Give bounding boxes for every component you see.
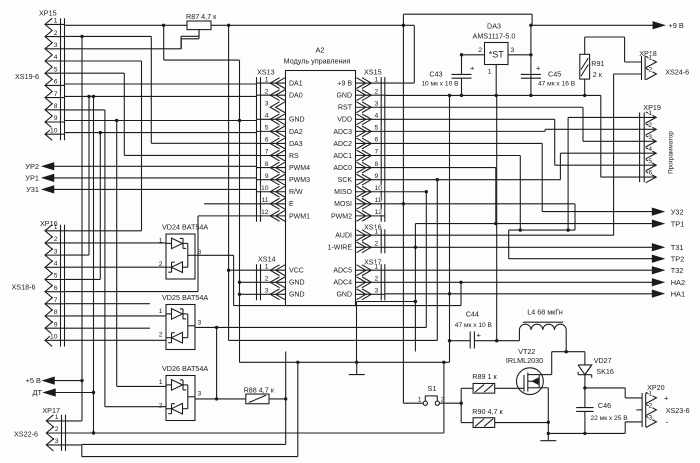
svg-text:GND: GND <box>336 93 352 100</box>
svg-text:1: 1 <box>159 379 163 386</box>
svg-text:2: 2 <box>159 332 163 339</box>
svg-text:DA2: DA2 <box>289 129 303 136</box>
svg-text:ADC2: ADC2 <box>333 141 352 148</box>
svg-text:4: 4 <box>54 54 58 61</box>
svg-text:8: 8 <box>265 161 269 168</box>
svg-text:1: 1 <box>159 237 163 244</box>
svg-text:RST: RST <box>338 105 353 112</box>
svg-text:VD27: VD27 <box>594 356 612 365</box>
svg-text:2: 2 <box>265 88 269 95</box>
svg-text:2: 2 <box>478 47 482 54</box>
svg-text:3: 3 <box>649 415 653 422</box>
svg-text:IRLML2030: IRLML2030 <box>506 356 543 365</box>
svg-text:1: 1 <box>265 263 269 270</box>
svg-text:3: 3 <box>375 288 379 295</box>
svg-text:7: 7 <box>54 297 58 304</box>
svg-text:3: 3 <box>511 47 515 54</box>
svg-text:7: 7 <box>375 149 379 156</box>
svg-text:PWM1: PWM1 <box>289 213 310 220</box>
svg-text:УР2: УР2 <box>25 162 39 171</box>
svg-text:6: 6 <box>265 137 269 144</box>
svg-text:2: 2 <box>54 30 58 37</box>
svg-text:R89 1 к: R89 1 к <box>472 372 497 381</box>
svg-text:5: 5 <box>54 66 58 73</box>
svg-text:7: 7 <box>265 149 269 156</box>
svg-text:3: 3 <box>375 100 379 107</box>
svg-text:+9 В: +9 В <box>337 81 352 88</box>
svg-text:GND: GND <box>336 292 352 299</box>
svg-text:9: 9 <box>54 321 58 328</box>
svg-text:1: 1 <box>265 76 269 83</box>
svg-text:2: 2 <box>54 236 58 243</box>
svg-text:9: 9 <box>265 173 269 180</box>
svg-text:AMS1117-5.0: AMS1117-5.0 <box>473 32 516 41</box>
svg-text:+5 В: +5 В <box>26 376 41 385</box>
svg-text:2: 2 <box>441 397 445 404</box>
svg-text:VT22: VT22 <box>518 347 535 356</box>
svg-text:3: 3 <box>54 248 58 255</box>
svg-text:НА2: НА2 <box>671 278 685 287</box>
svg-text:4: 4 <box>54 261 58 268</box>
svg-text:У31: У31 <box>26 185 39 194</box>
svg-text:8: 8 <box>375 161 379 168</box>
svg-text:9: 9 <box>54 115 58 122</box>
svg-text:Программатор: Программатор <box>668 131 675 174</box>
svg-text:+9 В: +9 В <box>668 21 683 30</box>
svg-text:R/W: R/W <box>289 189 303 196</box>
svg-text:GND: GND <box>289 292 305 299</box>
svg-text:5: 5 <box>648 158 652 165</box>
svg-text:C45: C45 <box>548 70 561 79</box>
svg-text:1: 1 <box>375 263 379 270</box>
svg-text:ТР2: ТР2 <box>671 254 685 263</box>
svg-text:ДТ: ДТ <box>32 388 42 397</box>
svg-text:А2: А2 <box>315 46 324 55</box>
svg-text:VD24 BAT54A: VD24 BAT54A <box>162 223 208 232</box>
svg-text:2 к: 2 к <box>593 70 603 79</box>
svg-text:XP15: XP15 <box>39 9 57 18</box>
svg-text:+: + <box>477 331 482 340</box>
svg-text:11: 11 <box>261 197 268 204</box>
svg-text:6: 6 <box>375 137 379 144</box>
svg-text:MISO: MISO <box>334 189 352 196</box>
svg-text:2: 2 <box>159 261 163 268</box>
svg-text:VD25 BAT54A: VD25 BAT54A <box>162 293 208 302</box>
svg-text:ADC0: ADC0 <box>333 165 352 172</box>
svg-text:R88 4,7 к: R88 4,7 к <box>244 386 275 395</box>
svg-text:VDD: VDD <box>337 117 352 124</box>
svg-text:НА1: НА1 <box>671 289 685 298</box>
svg-text:DA0: DA0 <box>289 93 303 100</box>
svg-text:3: 3 <box>198 390 202 397</box>
svg-text:2: 2 <box>375 88 379 95</box>
svg-text:Модуль управления: Модуль управления <box>284 57 351 66</box>
svg-text:7: 7 <box>54 91 58 98</box>
svg-text:8: 8 <box>54 309 58 316</box>
svg-text:R87 4,7 к: R87 4,7 к <box>186 12 217 21</box>
svg-text:1: 1 <box>54 18 58 25</box>
svg-text:RS: RS <box>289 153 299 160</box>
svg-text:2: 2 <box>265 276 269 283</box>
svg-text:2: 2 <box>649 403 653 410</box>
svg-text:10: 10 <box>50 127 58 134</box>
svg-text:XS24-6: XS24-6 <box>665 68 689 77</box>
svg-text:PWM4: PWM4 <box>289 165 310 172</box>
svg-text:S1: S1 <box>427 384 436 393</box>
svg-text:3: 3 <box>648 134 652 141</box>
svg-text:XP16: XP16 <box>40 219 58 228</box>
svg-text:C44: C44 <box>466 310 479 319</box>
svg-text:ТР1: ТР1 <box>671 219 685 228</box>
svg-text:XS23-6: XS23-6 <box>666 406 690 415</box>
svg-text:4: 4 <box>648 146 652 153</box>
svg-text:XS15: XS15 <box>364 67 382 76</box>
svg-text:+: + <box>470 64 475 73</box>
svg-text:3: 3 <box>265 100 269 107</box>
svg-text:3: 3 <box>265 288 269 295</box>
svg-text:PWM2: PWM2 <box>331 213 352 220</box>
svg-text:R90 4,7 к: R90 4,7 к <box>472 407 503 416</box>
svg-text:XP17: XP17 <box>42 406 60 415</box>
svg-text:4: 4 <box>265 113 269 120</box>
svg-text:1: 1 <box>488 69 492 76</box>
svg-text:MOSI: MOSI <box>334 201 352 208</box>
svg-text:Т32: Т32 <box>671 266 684 275</box>
svg-text:10 мк х 10 В: 10 мк х 10 В <box>421 81 459 88</box>
svg-text:3: 3 <box>198 249 202 256</box>
svg-text:XS14: XS14 <box>258 255 276 264</box>
svg-text:1: 1 <box>649 391 653 398</box>
svg-text:3: 3 <box>55 438 59 445</box>
svg-text:1-WIRE: 1-WIRE <box>328 245 353 252</box>
svg-text:PWM3: PWM3 <box>289 177 310 184</box>
svg-text:2: 2 <box>375 276 379 283</box>
svg-text:XS18-6: XS18-6 <box>12 282 36 291</box>
svg-text:XS13: XS13 <box>257 67 275 76</box>
svg-text:4: 4 <box>375 113 379 120</box>
svg-text:2: 2 <box>648 122 652 129</box>
svg-text:ADC4: ADC4 <box>333 280 352 287</box>
svg-text:DA3: DA3 <box>487 22 501 31</box>
svg-text:C43: C43 <box>429 70 442 79</box>
svg-text:12: 12 <box>375 209 383 216</box>
svg-text:У32: У32 <box>671 207 684 216</box>
svg-text:XS17: XS17 <box>364 258 382 267</box>
svg-text:47 мк х 10 В: 47 мк х 10 В <box>455 322 493 329</box>
svg-text:8: 8 <box>54 103 58 110</box>
svg-text:47 мк х 16 В: 47 мк х 16 В <box>538 81 576 88</box>
svg-text:+: + <box>664 394 669 403</box>
svg-text:R91: R91 <box>591 59 604 68</box>
svg-text:10: 10 <box>50 334 58 341</box>
svg-text:AUDI: AUDI <box>335 233 352 240</box>
svg-text:1: 1 <box>55 414 59 421</box>
svg-text:GND: GND <box>289 117 305 124</box>
svg-text:XS19-6: XS19-6 <box>15 72 39 81</box>
svg-text:1: 1 <box>375 76 379 83</box>
svg-text:5: 5 <box>375 125 379 132</box>
svg-text:1: 1 <box>418 397 422 404</box>
svg-text:12: 12 <box>261 209 269 216</box>
svg-text:DA1: DA1 <box>289 81 303 88</box>
svg-text:11: 11 <box>375 197 382 204</box>
svg-text:GND: GND <box>289 280 305 287</box>
svg-text:6: 6 <box>54 79 58 86</box>
svg-text:VCC: VCC <box>289 268 304 275</box>
svg-text:Т31: Т31 <box>671 243 684 252</box>
svg-text:VD26 BAT54A: VD26 BAT54A <box>162 364 208 373</box>
svg-text:3: 3 <box>198 319 202 326</box>
svg-text:5: 5 <box>265 125 269 132</box>
svg-text:DA3: DA3 <box>289 141 303 148</box>
svg-text:1: 1 <box>159 308 163 315</box>
svg-text:2: 2 <box>649 67 653 74</box>
svg-text:3: 3 <box>54 42 58 49</box>
svg-text:10: 10 <box>375 185 383 192</box>
svg-text:1: 1 <box>649 55 653 62</box>
svg-text:6: 6 <box>648 170 652 177</box>
svg-text:ADC3: ADC3 <box>333 129 352 136</box>
svg-text:10: 10 <box>261 185 269 192</box>
svg-text:ADC1: ADC1 <box>333 153 352 160</box>
svg-text:9: 9 <box>375 173 379 180</box>
svg-text:XP19: XP19 <box>643 103 661 112</box>
svg-text:*ST: *ST <box>489 50 505 60</box>
svg-text:1: 1 <box>375 228 379 235</box>
svg-text:E: E <box>289 201 294 208</box>
svg-text:2: 2 <box>375 241 379 248</box>
svg-text:ADC5: ADC5 <box>333 268 352 275</box>
svg-text:2: 2 <box>55 426 59 433</box>
svg-text:XS22-6: XS22-6 <box>14 429 38 438</box>
svg-text:L4 68 мкГн: L4 68 мкГн <box>527 308 563 317</box>
svg-text:SCK: SCK <box>338 177 353 184</box>
svg-text:XS16: XS16 <box>364 223 382 232</box>
svg-text:УР1: УР1 <box>25 174 39 183</box>
svg-text:SK16: SK16 <box>596 367 614 376</box>
svg-text:C46: C46 <box>598 401 611 410</box>
svg-text:+: + <box>536 64 541 73</box>
svg-text:5: 5 <box>54 273 58 280</box>
svg-text:6: 6 <box>54 285 58 292</box>
svg-text:1: 1 <box>648 110 652 117</box>
svg-text:22 мк х 25 В: 22 мк х 25 В <box>591 415 629 422</box>
